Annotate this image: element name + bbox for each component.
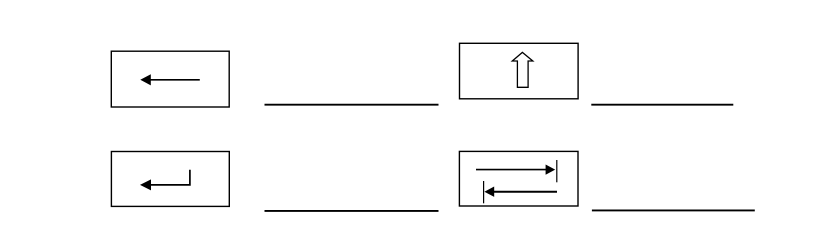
- blank line 2: [591, 104, 733, 106]
- arrow left (inside box 1): [140, 74, 200, 85]
- left arrow with head (inside box 4, lower): [484, 187, 557, 197]
- elbow arrow down-then-left (inside box 3): [140, 170, 190, 191]
- right arrow with head (inside box 4, upper): [476, 165, 555, 175]
- right stop bar (inside box 4): [556, 160, 558, 182]
- blank line 3: [265, 210, 439, 212]
- box 4 (bottom-right, double arrows with stop bars): [459, 151, 578, 206]
- box 3 (bottom-left, elbow return arrow): [111, 152, 229, 207]
- box 1 (top-left, left arrow): [111, 51, 229, 107]
- blank line 1: [265, 104, 439, 106]
- box 2 (top-right, hollow up arrow): [460, 43, 579, 99]
- blank line 4: [592, 209, 755, 211]
- left stop bar (inside box 4): [483, 181, 485, 203]
- hollow up block arrow (inside box 2): [512, 52, 533, 87]
